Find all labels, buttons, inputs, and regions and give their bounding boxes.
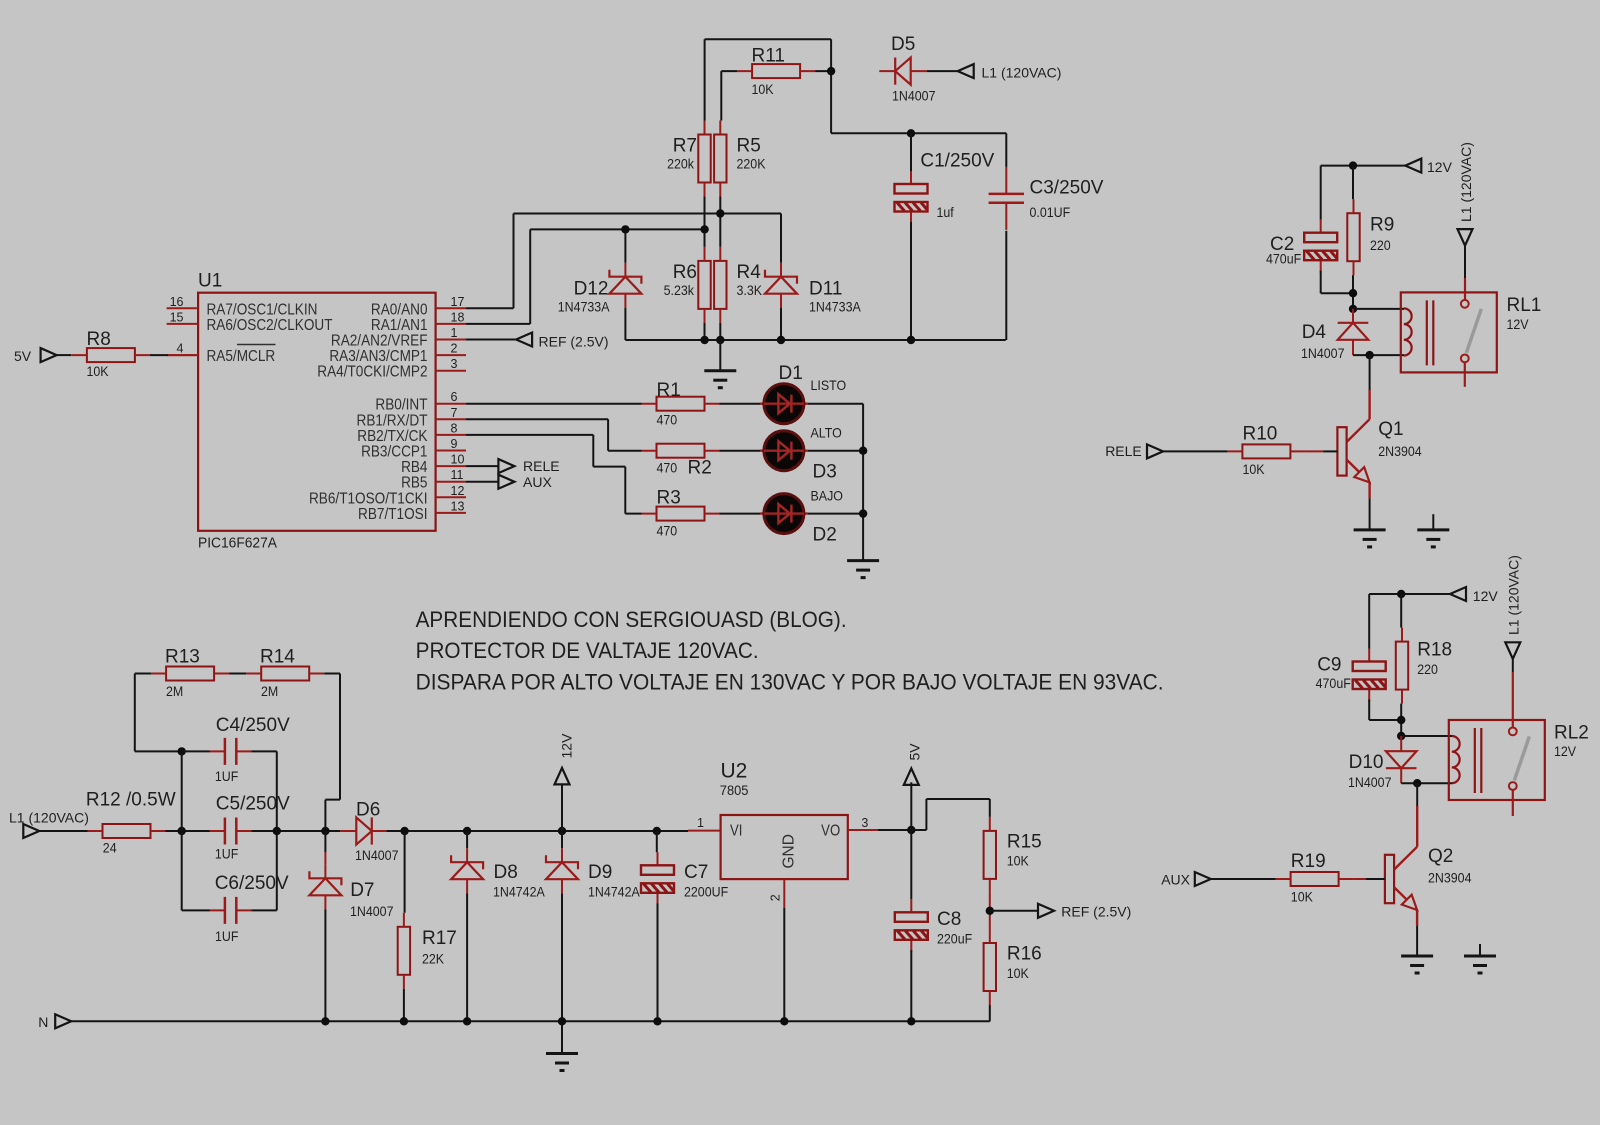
- svg-text:1UF: 1UF: [215, 846, 239, 862]
- svg-text:REF (2.5V): REF (2.5V): [1061, 904, 1131, 920]
- svg-text:VO: VO: [821, 823, 840, 840]
- wire C3 top stub: [1005, 133, 1007, 167]
- svg-text:GND: GND: [781, 834, 798, 868]
- svg-text:220: 220: [1370, 237, 1391, 253]
- svg-text:1uf: 1uf: [937, 205, 955, 221]
- wire R9 bottom to D4 node: [1352, 275, 1354, 309]
- node C8 N: [907, 1017, 915, 1025]
- wire 5V to R8: [57, 354, 72, 356]
- svg-text:R5: R5: [737, 136, 761, 157]
- wire R11 left to R5 branch: [721, 71, 737, 120]
- node D2 bus: [859, 509, 867, 517]
- svg-text:6: 6: [451, 390, 458, 404]
- node REF divider: [986, 907, 994, 915]
- svg-text:1N4733A: 1N4733A: [809, 299, 861, 315]
- wire D8 bottom to N rail: [466, 893, 468, 1021]
- wire L1 to R12: [39, 830, 87, 832]
- svg-text:RA4/T0CKI/CMP2: RA4/T0CKI/CMP2: [317, 364, 427, 381]
- diode D5 1N4007: [879, 58, 927, 85]
- svg-text:L1 (120VAC): L1 (120VAC): [1458, 142, 1474, 222]
- svg-text:9: 9: [451, 437, 458, 451]
- svg-text:RA5/MCLR: RA5/MCLR: [207, 348, 276, 365]
- svg-text:12V: 12V: [1473, 588, 1499, 604]
- svg-text:2N3904: 2N3904: [1378, 443, 1422, 459]
- wire R9 top stub join: [1352, 166, 1354, 200]
- pin 15 RA6/OSC2/CLKOUT stub: [167, 323, 199, 325]
- svg-text:4: 4: [177, 342, 184, 356]
- svg-text:470uF: 470uF: [1266, 251, 1301, 267]
- wire ground stub R4 node: [719, 340, 721, 371]
- svg-text:17: 17: [451, 295, 465, 309]
- node D6/R17 junction: [400, 827, 408, 835]
- wire pin6 RB0 to R1: [466, 403, 642, 405]
- svg-text:12V: 12V: [1507, 317, 1529, 333]
- svg-text:16: 16: [170, 295, 184, 309]
- svg-text:LISTO: LISTO: [811, 378, 847, 394]
- svg-text:2M: 2M: [261, 683, 278, 699]
- svg-text:ALTO: ALTO: [811, 425, 842, 441]
- svg-text:C5/250V: C5/250V: [216, 793, 290, 814]
- wire Q2 collector riser: [1416, 783, 1418, 806]
- svg-text:1N4007: 1N4007: [1301, 345, 1345, 361]
- wire RELE to R10: [1163, 450, 1227, 452]
- svg-text:1: 1: [451, 326, 458, 340]
- wire C7 bottom to N rail: [657, 903, 659, 1021]
- svg-text:15: 15: [170, 310, 184, 324]
- ground floating under RL1: [1432, 514, 1434, 530]
- wire R3 to LED D2: [720, 513, 761, 515]
- svg-text:1: 1: [697, 816, 704, 830]
- svg-text:470uF: 470uF: [1316, 675, 1351, 691]
- wire R12 to cap bank: [166, 830, 210, 832]
- resistor R12 /0.5W 24: [88, 824, 166, 838]
- wire RA0 net: pin17 to R5/R4 node and D11: [466, 197, 781, 309]
- node cap bank left rail: [178, 827, 186, 835]
- svg-text:D4: D4: [1302, 322, 1327, 343]
- wire collector riser red part: [1368, 390, 1370, 419]
- svg-text:D7: D7: [350, 880, 374, 901]
- resistor R7 220k: [698, 121, 710, 197]
- wire R8 to pin 4: [150, 354, 168, 356]
- svg-text:R17: R17: [422, 928, 457, 949]
- output flag RELE: [466, 465, 498, 467]
- resistor R11: [737, 64, 815, 78]
- node R7/R6/RA1 junction: [700, 225, 708, 233]
- node R9 top: [1349, 161, 1357, 169]
- wire D5 anode to L1 flag: [927, 70, 958, 72]
- svg-text:470: 470: [657, 523, 678, 539]
- wire 12V rail top right: [1321, 165, 1406, 167]
- svg-text:D12: D12: [574, 279, 609, 300]
- svg-text:C3/250V: C3/250V: [1030, 178, 1104, 199]
- wire N rail: [71, 1020, 990, 1022]
- svg-text:24: 24: [103, 840, 117, 856]
- resistor R13 2M: [151, 667, 229, 681]
- node right cap rail main: [273, 827, 281, 835]
- svg-text:R2: R2: [688, 458, 712, 479]
- wire C1 bottom to REF rail: [910, 222, 912, 340]
- wire D10 bottom / coil bottom: [1401, 782, 1452, 784]
- node D9/12V: [558, 827, 566, 835]
- node R18 top: [1397, 590, 1405, 598]
- pin 12 RB6/T1OSO/T1CKI stub: [436, 496, 466, 498]
- svg-text:R8: R8: [87, 329, 111, 350]
- pin 18 RA1/AN1 stub: [436, 323, 466, 325]
- svg-text:5.23k: 5.23k: [664, 283, 695, 299]
- svg-text:AUX: AUX: [523, 474, 552, 490]
- wire to RL2 coil top: [1401, 735, 1452, 737]
- svg-text:D5: D5: [891, 34, 915, 55]
- ground top divider: [704, 371, 736, 388]
- node R4 bottom: [716, 336, 724, 344]
- wire jog VO node to R15: [911, 799, 990, 830]
- svg-text:RELE: RELE: [523, 458, 560, 474]
- led D2 BAJO: [760, 494, 808, 534]
- svg-text:R7: R7: [673, 136, 697, 157]
- wire between R13 and R14: [229, 673, 246, 675]
- wire R18 bottom to D10 node: [1400, 704, 1402, 736]
- transistor Q2 2N3904: [1385, 847, 1417, 910]
- pin 4 RA5/MCLR stub: [167, 354, 199, 356]
- svg-text:D10: D10: [1349, 752, 1384, 773]
- svg-text:470: 470: [657, 460, 678, 476]
- wire R13 left down to C4 row: [135, 674, 182, 752]
- wire D11 bottom to REF rail: [780, 308, 782, 340]
- wire REF rail horizontal: [625, 339, 1005, 341]
- pin 2 RA3/AN3/CMP1 stub: [436, 354, 466, 356]
- wire pin7 RB1 to R2: [466, 419, 642, 450]
- svg-text:R11: R11: [752, 46, 785, 67]
- svg-text:C7: C7: [684, 862, 708, 883]
- svg-text:L1 (120VAC): L1 (120VAC): [1506, 555, 1522, 635]
- wire to RL1 coil top: [1353, 308, 1404, 310]
- svg-text:RA6/OSC2/CLKOUT: RA6/OSC2/CLKOUT: [207, 317, 333, 334]
- wire R19 right red extension: [1354, 878, 1366, 880]
- input flag RELE: [1147, 444, 1163, 458]
- wire left cap rail: [181, 751, 183, 910]
- node D9 N: [558, 1017, 566, 1025]
- wire R14 right down to D6 node: [324, 674, 340, 832]
- svg-text:2200UF: 2200UF: [684, 884, 728, 900]
- supply flag 5V: [910, 782, 912, 830]
- svg-text:2: 2: [451, 342, 458, 356]
- node Q1 collector branch: [1365, 351, 1373, 359]
- supply flag L1 (120VAC) top: [958, 64, 974, 78]
- wire R18 top stub join: [1400, 594, 1402, 628]
- svg-text:D11: D11: [809, 279, 842, 300]
- svg-text:R14: R14: [260, 647, 295, 668]
- input flag L1 (120VAC) bottom left: [23, 824, 39, 838]
- resistor R2 470: [642, 444, 720, 458]
- svg-text:1UF: 1UF: [215, 929, 239, 945]
- wire C2 bottom to node: [1321, 271, 1353, 294]
- svg-text:Q2: Q2: [1428, 846, 1453, 867]
- svg-text:5V: 5V: [907, 743, 923, 761]
- supply flag 5V: [41, 348, 57, 362]
- node D8 N: [463, 1017, 471, 1025]
- svg-text:C1/250V: C1/250V: [920, 151, 994, 172]
- svg-text:REF (2.5V): REF (2.5V): [539, 333, 609, 349]
- zener diode D12 1N4733A: [609, 263, 641, 308]
- svg-text:18: 18: [451, 310, 465, 324]
- capacitor C3/250V 0.01UF: [989, 167, 1024, 230]
- svg-text:R6: R6: [673, 262, 697, 283]
- node D7 N: [321, 1017, 329, 1025]
- node R11/D5/C1 junction: [827, 67, 835, 75]
- svg-text:RL2: RL2: [1554, 723, 1589, 744]
- pin 10 RB4 stub: [436, 465, 466, 467]
- node 5V/C8: [907, 826, 915, 834]
- wire pin8 RB2 to R3: [466, 435, 642, 514]
- node D11 bottom: [777, 336, 785, 344]
- relay RL1 12V: [1401, 292, 1497, 372]
- svg-text:1N4742A: 1N4742A: [588, 884, 640, 900]
- pin 11 RB5 stub: [436, 481, 466, 483]
- wire R16 bottom to N rail: [989, 1005, 991, 1021]
- wire R11 right to node: [815, 70, 831, 72]
- resistor R9 220: [1347, 199, 1359, 275]
- pin 4 red stub extension: [168, 354, 198, 356]
- wire C6 row: [182, 909, 277, 911]
- node R5/R4/RA0 junction: [716, 209, 724, 217]
- svg-text:8: 8: [451, 421, 458, 435]
- zener diode D8 1N4742A: [466, 831, 468, 848]
- node C9/R18 junction: [1397, 716, 1405, 724]
- svg-text:R18: R18: [1417, 640, 1452, 661]
- wire D12 bottom to REF rail: [624, 308, 626, 340]
- svg-text:R13: R13: [165, 647, 200, 668]
- svg-text:C6/250V: C6/250V: [215, 873, 289, 894]
- svg-text:1N4007: 1N4007: [350, 903, 394, 919]
- node C7 N: [653, 1017, 661, 1025]
- svg-text:220uF: 220uF: [937, 931, 972, 947]
- resistor R1 470: [642, 397, 720, 411]
- capacitor C7 2200UF: [656, 831, 658, 852]
- node D3 bus: [859, 447, 867, 455]
- svg-text:12V: 12V: [1427, 159, 1453, 175]
- node D10 top / coil top: [1397, 732, 1405, 740]
- relay RL2 12V: [1449, 720, 1545, 800]
- wire C4 row left: [182, 750, 210, 752]
- wire C2 branch down: [1320, 166, 1322, 220]
- svg-text:BAJO: BAJO: [811, 488, 843, 504]
- node Q2 collector branch: [1413, 779, 1421, 787]
- svg-text:10K: 10K: [87, 364, 109, 380]
- node R6 bottom: [700, 336, 708, 344]
- svg-text:3.3K: 3.3K: [737, 283, 763, 299]
- svg-text:220K: 220K: [737, 156, 766, 172]
- svg-text:R15: R15: [1007, 831, 1042, 852]
- resistor R18 220: [1396, 628, 1408, 704]
- pin 9 RB3/CCP1 stub: [436, 450, 466, 452]
- svg-text:D2: D2: [813, 525, 837, 546]
- wire node to REF flag: [990, 910, 1038, 912]
- supply flag 12V (RL1 section): [1405, 159, 1421, 173]
- wire RL2 contact top to L1 flag: [1512, 659, 1514, 672]
- svg-text:R1: R1: [657, 380, 681, 401]
- svg-text:5V: 5V: [14, 348, 32, 364]
- diode D6 1N4007: [340, 817, 386, 844]
- wire pin1 RA2 to REF flag: [466, 339, 516, 341]
- resistor R15 10K: [984, 817, 996, 893]
- wire Q2 emitter down: [1416, 910, 1418, 926]
- capacitor C9 470uF: [1353, 649, 1386, 702]
- wire D7 bottom to N rail: [324, 909, 326, 1021]
- wire R10 right red extension: [1305, 450, 1323, 452]
- capacitor C8 220uF: [910, 830, 912, 899]
- capacitor C2 470uF: [1304, 220, 1337, 273]
- node U2 GND N: [780, 1017, 788, 1025]
- pin 16 RA7/OSC1/CLKIN stub: [167, 307, 199, 309]
- svg-text:R16: R16: [1007, 944, 1042, 965]
- node D12 top: [621, 225, 629, 233]
- pin 7 RB1/RX/DT stub: [436, 418, 466, 420]
- node C1 bottom: [907, 336, 915, 344]
- wire RL1 contact top to L1 flag: [1464, 246, 1466, 278]
- svg-text:C8: C8: [937, 909, 961, 930]
- svg-text:2M: 2M: [166, 683, 183, 699]
- node C4 left rail junction: [178, 747, 186, 755]
- pin 1 red stub U2: [688, 830, 721, 832]
- resistor R10 10K: [1227, 444, 1305, 458]
- svg-text:C4/250V: C4/250V: [216, 715, 290, 736]
- ground N rail: [561, 1021, 563, 1053]
- ground LED bus: [847, 561, 879, 578]
- svg-text:1N4742A: 1N4742A: [493, 884, 545, 900]
- pin 13 RB7/T1OSI stub: [436, 512, 466, 514]
- svg-text:2: 2: [768, 894, 782, 901]
- capacitor C1/250V 1uf: [895, 171, 928, 224]
- node R17 N: [400, 1017, 408, 1025]
- svg-text:R10: R10: [1243, 423, 1278, 444]
- resistor R14 2M: [246, 667, 324, 681]
- wire VO to 5V node: [878, 829, 911, 831]
- wire C9 branch down: [1368, 594, 1370, 649]
- svg-text:12: 12: [451, 484, 465, 498]
- diode D4 1N4007: [1338, 309, 1369, 355]
- supply flag 12V rectifier: [561, 784, 563, 831]
- ground Q1 emitter: [1354, 530, 1386, 547]
- svg-text:10K: 10K: [1007, 966, 1029, 982]
- svg-text:1N4007: 1N4007: [1348, 774, 1392, 790]
- wire R6/R4 bottoms to REF rail: [705, 323, 721, 340]
- svg-text:22K: 22K: [422, 951, 444, 967]
- svg-text:RL1: RL1: [1507, 295, 1542, 316]
- svg-text:1UF: 1UF: [215, 768, 239, 784]
- wire AUX to R19: [1211, 878, 1276, 880]
- wire right cap rail: [276, 751, 278, 910]
- zener diode D11 1N4733A: [765, 263, 797, 308]
- svg-text:R3: R3: [657, 488, 681, 509]
- svg-text:12V: 12V: [559, 733, 575, 759]
- svg-text:D9: D9: [588, 862, 612, 883]
- svg-text:2N3904: 2N3904: [1428, 870, 1472, 886]
- pin 1 RA2/AN2/VREF stub: [436, 339, 466, 341]
- node D4 top / coil top: [1349, 305, 1357, 313]
- node R14/D7 branch: [321, 827, 329, 835]
- svg-text:10: 10: [451, 453, 465, 467]
- wire R2 to LED D3: [720, 450, 761, 452]
- wire D3 to cathode bus: [808, 450, 863, 452]
- svg-text:D6: D6: [356, 799, 380, 820]
- svg-text:470: 470: [657, 412, 678, 428]
- pin 8 RB2/TX/CK stub: [436, 434, 466, 436]
- resistor R3 470: [642, 507, 720, 521]
- ground floating under RL2: [1479, 944, 1481, 956]
- output flag AUX: [466, 481, 498, 483]
- ground Q2 emitter: [1401, 956, 1433, 973]
- svg-text:7805: 7805: [720, 783, 749, 799]
- svg-text:3: 3: [861, 816, 868, 830]
- svg-text:Q1: Q1: [1378, 419, 1403, 440]
- wire RL2 contact bottom open stub: [1512, 790, 1514, 816]
- input flag N: [55, 1014, 71, 1028]
- pin 3 RA4/T0CKI/CMP2 stub: [436, 370, 466, 372]
- svg-text:L1 (120VAC): L1 (120VAC): [982, 65, 1062, 81]
- svg-text:D8: D8: [494, 862, 518, 883]
- wire RA1 net: pin18 to R7/R6 node and D12: [466, 197, 705, 324]
- svg-text:N: N: [38, 1014, 48, 1030]
- supply flag L1 (120VAC) at RL2: [1505, 642, 1520, 659]
- wire D1 to cathode bus: [808, 403, 863, 405]
- svg-text:RELE: RELE: [1105, 443, 1142, 459]
- svg-text:11: 11: [451, 468, 464, 482]
- wire 12V rail RL2 section: [1369, 593, 1450, 595]
- wire LED cathode bus: [862, 404, 864, 561]
- wire R15 to R16 red link: [989, 893, 991, 929]
- svg-text:12V: 12V: [1554, 743, 1576, 759]
- svg-text:10K: 10K: [1291, 889, 1313, 905]
- transistor Q1 2N3904: [1337, 419, 1369, 482]
- wire R17 bottom to N rail: [403, 989, 405, 1022]
- wire D2 to cathode bus: [808, 513, 863, 515]
- output flag REF (2.5V): [1038, 904, 1054, 918]
- wire C1 top stub: [910, 133, 912, 171]
- svg-text:10K: 10K: [1243, 461, 1265, 477]
- svg-text:10K: 10K: [752, 82, 774, 98]
- resistor R19 10K: [1276, 872, 1354, 886]
- svg-text:PROTECTOR DE VALTAJE 120VAC.: PROTECTOR DE VALTAJE 120VAC.: [416, 638, 759, 663]
- wire D9 bottom to N rail: [561, 893, 563, 1021]
- svg-text:0.01UF: 0.01UF: [1030, 205, 1071, 221]
- wire D4 bottom / coil bottom: [1353, 354, 1404, 356]
- wire C5 row right to D6: [251, 830, 340, 832]
- input flag AUX: [1195, 872, 1211, 886]
- pin 2 stub U2 GND: [783, 879, 785, 908]
- svg-text:R19: R19: [1291, 851, 1326, 872]
- resistor R17 22K: [404, 831, 406, 913]
- capacitor C6/250V 1UF: [210, 897, 251, 924]
- svg-text:1N4007: 1N4007: [892, 88, 936, 104]
- svg-text:1N4733A: 1N4733A: [558, 299, 610, 315]
- svg-text:D1: D1: [779, 363, 803, 384]
- svg-text:3: 3: [451, 357, 458, 371]
- wire C9 bottom to node: [1369, 700, 1401, 721]
- svg-text:U1: U1: [198, 271, 222, 292]
- capacitor C4/250V 1UF: [210, 738, 251, 765]
- ic U2 7805 body: [721, 815, 848, 879]
- node C1 top: [907, 129, 915, 137]
- wire C8 bottom to N rail: [910, 950, 912, 1021]
- wire top loop R7-top to D5 node: [705, 39, 832, 133]
- supply flag 12V (RL2 section): [1450, 587, 1466, 601]
- led D1 LISTO: [760, 384, 808, 424]
- svg-text:R4: R4: [737, 262, 762, 283]
- capacitor C5/250V 1UF: [210, 818, 251, 845]
- svg-text:DISPARA POR ALTO VOLTAJE EN 13: DISPARA POR ALTO VOLTAJE EN 130VAC Y POR…: [416, 669, 1164, 694]
- wire R1 to LED D1: [720, 403, 761, 405]
- wire C4 row right: [251, 750, 276, 752]
